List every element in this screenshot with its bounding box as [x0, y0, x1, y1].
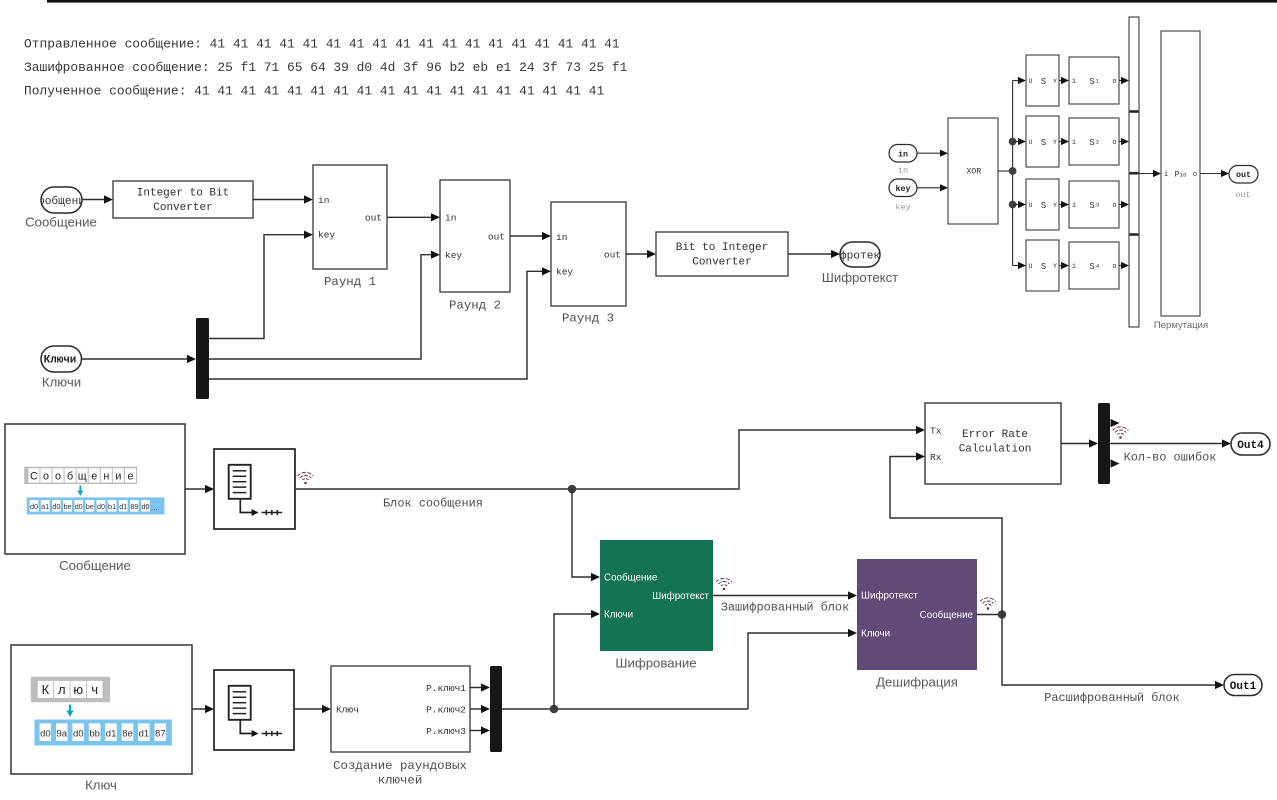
- svg-text:S: S: [1089, 77, 1094, 87]
- mux divider: [1130, 172, 1139, 175]
- svg-text:Converter: Converter: [153, 202, 212, 214]
- svg-text:и: и: [115, 471, 121, 483]
- svg-text:out: out: [1235, 190, 1250, 200]
- svg-text:a1: a1: [41, 502, 49, 511]
- block Шифрование: [600, 540, 713, 651]
- demux stub arrow bottom: [1111, 459, 1120, 467]
- svg-text:...: ...: [151, 503, 158, 512]
- wire keys to Шифрование Ключи: [554, 614, 595, 709]
- wire S-box 3 to mux: [1119, 204, 1124, 206]
- svg-text:Calculation: Calculation: [959, 443, 1032, 455]
- demux bar errors: [1098, 403, 1110, 484]
- wire Р.ключ3 to mux: [470, 730, 485, 732]
- svg-text:Кол-во ошибок: Кол-во ошибок: [1124, 451, 1217, 465]
- svg-text:d0: d0: [141, 502, 149, 511]
- svg-text:i: i: [1072, 139, 1076, 147]
- svg-text:key: key: [895, 184, 910, 194]
- inport oval key: [889, 179, 917, 197]
- wire spec2 to Создание: [294, 708, 326, 710]
- block selector U S Y 3: [1026, 179, 1059, 230]
- svg-text:Р.ключ3: Р.ключ3: [426, 726, 466, 737]
- svg-text:Y: Y: [1053, 202, 1057, 209]
- svg-text:Полученное сообщение: 41 41 41: Полученное сообщение: 41 41 41 41 41 41 …: [24, 84, 604, 99]
- svg-text:Создание раундовых: Создание раундовых: [333, 759, 467, 773]
- svg-text:о: о: [43, 471, 49, 483]
- block permutation P10: [1161, 31, 1200, 316]
- wifi icon spec1: [298, 472, 314, 484]
- svg-text:key: key: [895, 202, 910, 212]
- svg-text:Ключи: Ключи: [604, 609, 633, 620]
- svg-text:Расшифрованный блок: Расшифрованный блок: [1044, 691, 1180, 705]
- doc elbow arrow 2: [240, 721, 254, 734]
- svg-text:i: i: [1072, 263, 1076, 271]
- svg-text:ю: ю: [73, 682, 83, 697]
- gray letter strip Ключ: [31, 677, 110, 703]
- subsystem box Ключ source: [11, 645, 192, 774]
- svg-text:10: 10: [1179, 171, 1187, 178]
- doc icon 2: [229, 686, 251, 720]
- svg-text:Ключи: Ключи: [861, 628, 890, 639]
- svg-text:л: л: [58, 682, 66, 697]
- svg-text:U: U: [1029, 139, 1033, 146]
- svg-text:in: in: [898, 165, 908, 175]
- svg-text:Y: Y: [1053, 263, 1057, 270]
- svg-text:S: S: [1089, 138, 1094, 148]
- wire Сообщение box to spec block: [185, 488, 209, 490]
- signal spec block 1: [214, 449, 295, 529]
- svg-text:Tx: Tx: [930, 425, 942, 436]
- svg-text:d1: d1: [106, 728, 117, 739]
- wire S-box 4 to mux: [1119, 265, 1124, 267]
- svg-text:Ключ: Ключ: [85, 778, 117, 793]
- wire S-box 2 to mux: [1119, 141, 1124, 143]
- outport oval out: [1229, 166, 1258, 184]
- block Error Rate Calculation: [925, 403, 1061, 484]
- svg-text:b1: b1: [108, 502, 116, 511]
- svg-text:be: be: [63, 502, 71, 511]
- block selector U S Y 1: [1026, 55, 1059, 106]
- svg-text:б: б: [67, 471, 73, 483]
- svg-text:Converter: Converter: [692, 256, 751, 268]
- teal arrow message: [79, 486, 81, 493]
- mux bar keys 2: [490, 666, 502, 752]
- svg-text:out: out: [488, 232, 505, 243]
- block S-box S4: [1069, 242, 1119, 289]
- svg-text:Отправленное сообщение: 41 41: Отправленное сообщение: 41 41 41 41 41 4…: [24, 37, 620, 52]
- svg-text:Out4: Out4: [1237, 440, 1264, 452]
- outport oval Out1: [1224, 675, 1262, 696]
- wire selector 2 to S-box 2: [1059, 141, 1064, 143]
- svg-text:key: key: [445, 250, 462, 261]
- block Дешифрация: [857, 559, 977, 670]
- wire demux to Раунд 1 key: [209, 235, 308, 339]
- wire in to XOR: [917, 152, 943, 154]
- svg-text:out: out: [604, 249, 621, 260]
- svg-text:Дешифрация: Дешифрация: [876, 675, 958, 690]
- svg-text:Ключ: Ключ: [336, 704, 359, 715]
- svg-text:U: U: [1029, 263, 1033, 270]
- wire trunk to selector 2: [1013, 141, 1022, 143]
- svg-text:Р.ключ2: Р.ключ2: [426, 704, 466, 715]
- wire converter to Раунд 1 in: [253, 199, 308, 201]
- svg-text:Шифротекст: Шифротекст: [826, 249, 893, 262]
- junction dot keys: [550, 705, 559, 714]
- svg-text:o: o: [1112, 78, 1116, 86]
- wire trunk to selector 1: [1013, 80, 1022, 82]
- wifi icon errors: [1113, 427, 1129, 439]
- svg-text:U: U: [1029, 202, 1033, 209]
- svg-text:o: o: [1112, 202, 1116, 210]
- svg-text:Раунд 3: Раунд 3: [562, 312, 614, 326]
- svg-text:S: S: [1089, 201, 1094, 211]
- junction dot row2: [1009, 138, 1017, 146]
- svg-text:o: o: [1112, 139, 1116, 147]
- svg-text:i: i: [1164, 171, 1168, 179]
- svg-text:out: out: [1236, 170, 1251, 180]
- wire Р.ключ2 to mux: [470, 708, 485, 710]
- mux divider: [1130, 233, 1139, 236]
- svg-text:d0: d0: [52, 502, 60, 511]
- block XOR: [948, 118, 998, 224]
- wire Зашифрованный блок: [713, 595, 852, 597]
- wire Ключ box to spec block 2: [192, 708, 209, 710]
- svg-text:Блок сообщения: Блок сообщения: [383, 497, 483, 511]
- wire key to XOR: [917, 187, 943, 189]
- svg-text:Р.ключ1: Р.ключ1: [426, 683, 466, 694]
- svg-text:87: 87: [155, 728, 166, 739]
- svg-text:be: be: [86, 502, 94, 511]
- svg-text:i: i: [1072, 202, 1076, 210]
- block selector U S Y 4: [1026, 240, 1059, 291]
- svg-text:key: key: [318, 230, 335, 241]
- doc tick line 1: [262, 512, 283, 514]
- svg-text:Y: Y: [1053, 78, 1057, 85]
- svg-text:o: o: [1193, 171, 1197, 179]
- svg-text:bb: bb: [89, 728, 100, 739]
- svg-text:Integer to Bit: Integer to Bit: [137, 188, 229, 200]
- svg-text:S: S: [1041, 201, 1046, 211]
- svg-text:U: U: [1029, 78, 1033, 85]
- wire decrypted to Rx: [890, 457, 1002, 615]
- doc tick line 2: [262, 733, 283, 735]
- wire trunk to selector 3: [1013, 204, 1022, 206]
- svg-text:Ключи: Ключи: [44, 354, 77, 366]
- mux bar tall: [1129, 17, 1139, 327]
- wire P10 to out: [1200, 173, 1224, 175]
- doc icon 1: [229, 465, 251, 499]
- wire demux to Раунд 3 key: [209, 271, 546, 379]
- svg-text:Шифротекст: Шифротекст: [822, 270, 898, 285]
- svg-text:Сообщение: Сообщение: [59, 558, 131, 573]
- outport oval Out4: [1231, 433, 1270, 455]
- svg-text:o: o: [1112, 263, 1116, 271]
- svg-text:е: е: [91, 471, 97, 483]
- svg-text:d1: d1: [119, 502, 127, 511]
- svg-text:ключей: ключей: [378, 773, 423, 787]
- inport oval Ключи: [41, 346, 82, 372]
- svg-text:in: in: [445, 213, 456, 224]
- svg-text:in: in: [318, 195, 329, 206]
- svg-text:К: К: [42, 682, 50, 697]
- wire keys to Дешифрация Ключи: [748, 633, 852, 709]
- svg-text:1: 1: [1096, 77, 1100, 84]
- wire junction to Шифрование Сообщение: [572, 489, 595, 577]
- svg-text:d0: d0: [75, 502, 83, 511]
- svg-text:Out1: Out1: [1230, 681, 1257, 693]
- svg-text:Раунд 2: Раунд 2: [449, 299, 501, 313]
- wire Расшифрованный блок to Out1: [1002, 615, 1219, 686]
- subsystem box Сообщение source: [5, 424, 185, 554]
- wire Bit to Integer to Шифротекст: [788, 253, 835, 255]
- svg-text:3: 3: [1096, 201, 1100, 208]
- signal spec block 2: [214, 670, 294, 750]
- svg-text:Шифротекст: Шифротекст: [861, 590, 918, 601]
- wire selector 3 to S-box 3: [1059, 204, 1064, 206]
- svg-text:Раунд 1: Раунд 1: [324, 275, 376, 289]
- svg-text:S: S: [1041, 77, 1046, 87]
- svg-text:2: 2: [1096, 138, 1100, 145]
- wifi icon Дешифрация: [980, 598, 996, 610]
- svg-text:d0: d0: [73, 728, 84, 739]
- svg-text:S: S: [1089, 262, 1094, 272]
- svg-text:Error Rate: Error Rate: [962, 429, 1028, 441]
- svg-text:щ: щ: [78, 471, 87, 483]
- wire trunk to selector 4: [1013, 265, 1022, 267]
- wire Раунд 2 out to Раунд 3 in: [510, 235, 546, 237]
- svg-text:Шифротекст: Шифротекст: [652, 591, 709, 602]
- wire selector 4 to S-box 4: [1059, 265, 1064, 267]
- svg-text:ч: ч: [91, 682, 98, 697]
- wire Раунд 3 out to Bit to Integer: [626, 253, 651, 255]
- wire Дешифрация out: [977, 614, 1002, 616]
- svg-text:Сообщение: Сообщение: [25, 215, 97, 230]
- svg-text:С: С: [30, 471, 38, 483]
- top border bar: [47, 0, 1277, 3]
- svg-text:9a: 9a: [57, 728, 68, 739]
- svg-text:Ключи: Ключи: [42, 374, 81, 389]
- wifi icon Шифрование: [716, 578, 732, 590]
- svg-text:XOR: XOR: [966, 167, 981, 176]
- svg-text:d0: d0: [30, 502, 38, 511]
- svg-text:Rx: Rx: [930, 452, 942, 463]
- wire Error Rate to demux: [1061, 443, 1093, 445]
- wire S-box 1 to mux: [1119, 80, 1124, 82]
- svg-text:out: out: [365, 212, 382, 223]
- wire Раунд 1 out to Раунд 2 in: [387, 216, 435, 218]
- block selector U S Y 2: [1026, 116, 1059, 167]
- svg-text:Пермутация: Пермутация: [1154, 320, 1208, 331]
- svg-text:4: 4: [1096, 262, 1100, 269]
- svg-text:о: о: [55, 471, 61, 483]
- block Раунд 1: [313, 165, 387, 269]
- svg-text:d0: d0: [97, 502, 105, 511]
- svg-text:d1: d1: [139, 728, 150, 739]
- block S-box S3: [1069, 181, 1119, 228]
- wire XOR out trunk: [998, 170, 1013, 172]
- wire mux to P10: [1139, 173, 1156, 175]
- junction dot decrypted: [998, 610, 1007, 619]
- wire Ключи to demux: [82, 358, 191, 360]
- block Раунд 3: [551, 202, 626, 306]
- blue byte strip key: [35, 720, 172, 746]
- wire key mux out: [502, 708, 748, 710]
- svg-text:key: key: [556, 267, 573, 278]
- svg-text:Зашифрованный блок: Зашифрованный блок: [721, 601, 849, 615]
- svg-text:d0: d0: [40, 728, 51, 739]
- block Integer to Bit Converter: [113, 181, 253, 218]
- svg-text:Шифрование: Шифрование: [615, 656, 696, 671]
- mux divider: [1130, 110, 1139, 113]
- demux stub arrow top: [1111, 419, 1120, 427]
- junction dot message: [568, 485, 577, 494]
- block Создание раундовых ключей: [331, 666, 470, 752]
- svg-text:S: S: [1041, 262, 1046, 272]
- block S-box S1: [1069, 57, 1119, 104]
- svg-text:Y: Y: [1053, 139, 1057, 146]
- wire selector 1 to S-box 1: [1059, 80, 1064, 82]
- svg-text:in: in: [898, 149, 908, 159]
- wire Сообщение to converter: [82, 199, 108, 201]
- svg-text:in: in: [556, 232, 567, 243]
- wire Блок сообщения: [295, 488, 735, 490]
- block S-box S2: [1069, 118, 1119, 165]
- wire demux to Раунд 2 key: [209, 255, 435, 359]
- demux bar keys: [196, 318, 209, 399]
- svg-text:Сообщение: Сообщение: [920, 610, 974, 621]
- block Bit to Integer Converter: [656, 232, 788, 276]
- svg-text:89: 89: [130, 502, 138, 511]
- svg-text:е: е: [127, 471, 133, 483]
- svg-text:Сообщение: Сообщение: [604, 572, 658, 583]
- wire errors to Out4: [1110, 443, 1226, 445]
- svg-text:Зашифрованное сообщение: 25 f1: Зашифрованное сообщение: 25 f1 71 65 64 …: [24, 60, 628, 75]
- inport oval in: [889, 145, 917, 163]
- svg-text:Bit to Integer: Bit to Integer: [676, 242, 768, 254]
- gray letter strip Сообщение: [24, 467, 137, 484]
- wire to Tx: [735, 430, 920, 489]
- svg-text:i: i: [1072, 78, 1076, 86]
- junction dot row3: [1009, 201, 1017, 209]
- block Раунд 2: [440, 180, 510, 292]
- junction dot mid: [1009, 167, 1017, 175]
- wire Р.ключ1 to mux: [470, 687, 485, 689]
- svg-text:н: н: [103, 471, 109, 483]
- blue byte strip message: [27, 497, 165, 514]
- svg-text:S: S: [1041, 138, 1046, 148]
- svg-text:8e: 8e: [122, 728, 133, 739]
- doc elbow arrow 1: [240, 500, 254, 513]
- teal arrow key: [69, 705, 71, 714]
